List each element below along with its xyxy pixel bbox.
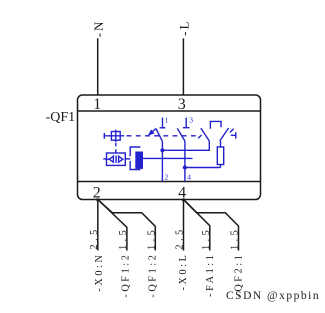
- svg-text:4: 4: [178, 184, 186, 201]
- wire terminal2 to QF1:2 (first): [98, 200, 127, 251]
- wire terminal2 to QF1:2 (second): [98, 200, 156, 251]
- wire pole1 to test contact: [162, 141, 209, 150]
- wire -L (top line lead): [182, 38, 184, 95]
- node pole1 junction: [160, 148, 164, 152]
- svg-text:1: 1: [93, 96, 101, 113]
- svg-text:-L: -L: [177, 20, 192, 36]
- current transformer core (filled): [135, 152, 143, 169]
- svg-text:-QF1:2: -QF1:2: [148, 253, 159, 298]
- wire terminal4 to FA1:1: [184, 200, 210, 251]
- svg-text:3: 3: [189, 116, 193, 125]
- pole 2 moving blade: [177, 128, 185, 141]
- resistor (test): [217, 141, 223, 168]
- pole 1 lower conductor: [161, 141, 163, 181]
- svg-text:2.5: 2.5: [175, 226, 186, 249]
- svg-text:1: 1: [165, 116, 169, 125]
- wire neutral path inside breaker: [143, 157, 193, 159]
- terminal strip divider bottom: [78, 181, 261, 183]
- terminal strip divider top: [78, 110, 261, 112]
- svg-text:1.5: 1.5: [230, 227, 241, 250]
- test terminal right tick: [231, 132, 236, 138]
- pole 1 trip arrow: [148, 129, 156, 136]
- pole 1 fixed contact stub: [160, 118, 166, 128]
- svg-text:4: 4: [187, 173, 191, 182]
- test button T (crossed square): [107, 130, 125, 142]
- wire pole2 to resistor: [185, 167, 221, 169]
- svg-text:-QF1: -QF1: [46, 110, 76, 125]
- linkage dashed vertical: [115, 143, 117, 153]
- svg-text:-X0:L: -X0:L: [178, 253, 189, 291]
- svg-text:1.5: 1.5: [147, 227, 158, 250]
- node terminal 4 junction: [182, 198, 185, 201]
- wire terminal4 to QF2:1: [184, 200, 239, 251]
- residual current detector box: [103, 153, 130, 165]
- detector symbol (triangles and bar): [107, 155, 123, 163]
- svg-text:-FA1:1: -FA1:1: [205, 253, 216, 297]
- pole 2 fixed contact stub: [183, 118, 190, 128]
- pole 2 lower conductor: [184, 141, 186, 182]
- linkage dashed horizontal: [127, 135, 200, 137]
- node terminal 2 junction: [96, 198, 99, 201]
- svg-text:2.5: 2.5: [89, 226, 100, 249]
- test contact right blade: [220, 128, 234, 141]
- node pole2 junction: [183, 165, 187, 169]
- wire -N (top neutral lead): [97, 38, 99, 95]
- svg-text:-N: -N: [91, 20, 106, 38]
- breaker QF1 body outline: [78, 95, 261, 200]
- svg-text:-X0:N: -X0:N: [94, 253, 105, 292]
- wire terminal2 to X0:N: [97, 200, 99, 251]
- current transformer bracket: [130, 147, 140, 170]
- test contact left blade: [198, 128, 209, 141]
- pole 1 moving blade: [156, 129, 163, 142]
- svg-text:3: 3: [178, 96, 186, 113]
- svg-text:CSDN @xppbin: CSDN @xppbin: [226, 290, 320, 302]
- svg-text:1.5: 1.5: [118, 227, 129, 250]
- linkage end tick left: [104, 133, 106, 139]
- svg-text:-QF1:2: -QF1:2: [121, 253, 132, 298]
- svg-text:2: 2: [165, 173, 169, 182]
- wire terminal4 to X0:L: [183, 200, 185, 251]
- svg-text:1.5: 1.5: [201, 227, 212, 250]
- test contact hook: [210, 121, 221, 128]
